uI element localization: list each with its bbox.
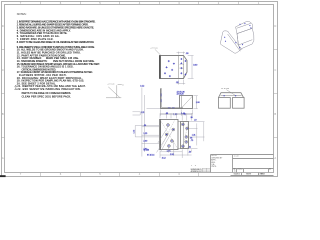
svg-text:SHEET 1 OF 1: SHEET 1 OF 1 [260, 174, 266, 176]
title block size/dwg row [233, 169, 271, 171]
flat pattern bottom dimension [176, 80, 186, 85]
svg-text:B: B [274, 112, 276, 116]
flat pattern view outline [160, 56, 188, 79]
svg-text:DWG. NO.: DWG. NO. [237, 169, 243, 171]
svg-text:REV: REV [269, 169, 271, 171]
svg-text:R .06: R .06 [180, 68, 184, 70]
left auxiliary dimension lower [133, 126, 159, 137]
svg-text:1.25: 1.25 [141, 112, 145, 114]
front view top dimension row [160, 113, 197, 121]
svg-text:.75: .75 [191, 140, 194, 142]
application mini table [202, 168, 210, 172]
svg-text:D: D [274, 24, 276, 28]
front view left dimension stack [140, 85, 159, 156]
isometric view: sheet metal bracket [220, 21, 254, 53]
front view bend dashed lines [160, 120, 188, 149]
notes list block 2 [17, 46, 101, 98]
svg-text:2X Ø.26: 2X Ø.26 [177, 94, 184, 96]
bottom view leader note [221, 88, 235, 95]
svg-text:CMTS:: CMTS: [211, 166, 217, 168]
title block left column texts [211, 155, 223, 168]
notes list block 1 [17, 21, 96, 44]
svg-text:2X R.03: 2X R.03 [108, 84, 115, 86]
svg-text:C: C [2, 68, 4, 72]
svg-text:.31: .31 [188, 146, 191, 148]
flat pattern right dimension [188, 56, 198, 79]
zone numbers top [20, 1, 260, 5]
svg-text:1X: 1X [191, 165, 197, 167]
zone tick marks top [41, 1, 239, 5]
flat pattern top dimension [177, 52, 190, 55]
title block outline [211, 155, 274, 176]
svg-text:CLEAN PER SPEC 2001 BEFORE PAC: CLEAN PER SPEC 2001 BEFORE PACK. [22, 95, 72, 98]
bottom view hole marks [224, 94, 237, 97]
svg-text:2X Ø.136: 2X Ø.136 [221, 88, 229, 90]
side view top dimension texts [177, 91, 185, 95]
flat pattern hole center crosses [164, 58, 186, 77]
zone tick marks right [274, 50, 278, 138]
svg-text:UP 90: UP 90 [180, 64, 185, 66]
side view right dimension [193, 96, 200, 109]
sheet background [0, 0, 279, 181]
title block scale row [234, 173, 266, 176]
front view lower-left leader texts [144, 126, 173, 156]
side view hole center dashes [161, 93, 175, 108]
corner trim mark bottom-left [0, 175, 6, 177]
svg-text:6X Ø.14: 6X Ø.14 [147, 154, 155, 156]
svg-text:.38: .38 [190, 117, 193, 119]
flat pattern bend note text [180, 64, 185, 70]
svg-text:A: A [2, 156, 4, 160]
svg-text:TITLE:: TITLE: [234, 156, 240, 158]
zone tick marks bottom [41, 173, 199, 177]
zone numbers bottom [20, 172, 260, 176]
svg-text:1.13: 1.13 [133, 130, 135, 134]
isometric hole marks [224, 23, 251, 48]
svg-text:D: D [2, 24, 4, 28]
svg-text:APPLICATION DO NOT: APPLICATION DO NOT [191, 170, 202, 173]
svg-text:.19: .19 [194, 119, 197, 121]
svg-text:NOTES:: NOTES: [17, 12, 27, 16]
svg-text:22. ESD SENSITIVE HANDLING PRE: 22. ESD SENSITIVE HANDLING PRECAUTION. [17, 88, 81, 91]
side view bottom dimensions [160, 109, 192, 116]
outer border frame [2, 2, 278, 177]
svg-text:B: B [2, 112, 4, 116]
side view: wall and base [147, 89, 193, 109]
svg-text:C: C [274, 68, 276, 72]
front view right dimension stack [188, 122, 204, 154]
zone letters left [2, 24, 4, 160]
bottom view: two flange rectangles [219, 93, 245, 109]
flat pattern leader note top-left [150, 48, 161, 56]
application note lines [191, 168, 203, 173]
svg-text:8. PART TO BE CLEAN AND FREE O: 8. PART TO BE CLEAN AND FREE OF OIL RESI… [17, 41, 95, 44]
bend detail sketch [106, 84, 124, 98]
svg-text:A: A [274, 156, 276, 160]
zone letters right [274, 24, 276, 160]
svg-text:SCALE: 1:2: SCALE: 1:2 [234, 173, 241, 176]
front view holes [165, 123, 188, 148]
front view outline [160, 120, 189, 150]
svg-text:.50: .50 [188, 152, 191, 154]
svg-text:Ø.136: Ø.136 [144, 149, 150, 151]
front view bottom dimension rows [160, 141, 192, 159]
svg-text:1.31: 1.31 [192, 134, 196, 136]
zone tick marks left [1, 50, 5, 138]
inner border frame [5, 5, 274, 173]
flag note triangles [15, 85, 17, 90]
left auxiliary dimension upper [133, 112, 145, 115]
svg-text:2X R.05: 2X R.05 [150, 48, 158, 50]
